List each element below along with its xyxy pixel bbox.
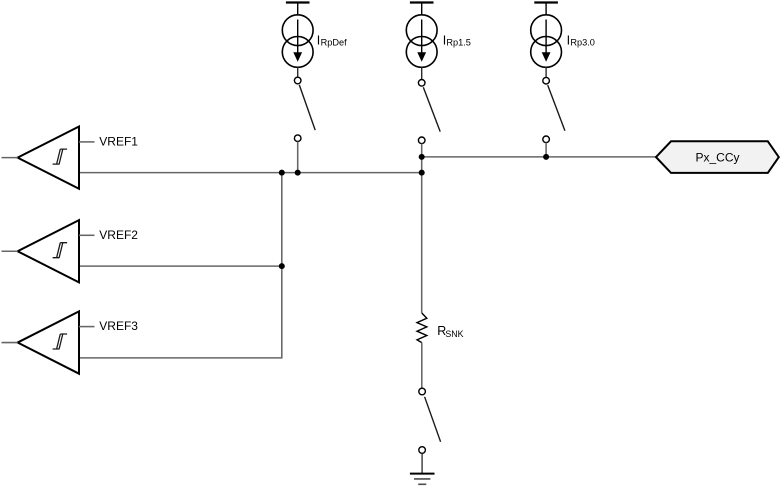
power rail bar (IRpDef supply) bbox=[286, 3, 310, 16]
wire SW3 to node A line bbox=[545, 143, 547, 157]
switch SW3 (below IRp3.0) bbox=[543, 77, 565, 142]
svg-text:VREF1: VREF1 bbox=[99, 135, 138, 149]
wire SW1 to bus node bbox=[297, 142, 299, 173]
svg-text:Rp3.0: Rp3.0 bbox=[570, 38, 595, 48]
op-amp U3 (Schmitt comparator VREF3) bbox=[18, 311, 79, 373]
wire IRp1.5 to SW2 bbox=[421, 67, 423, 79]
switch SW1 (below IRpDef) bbox=[294, 77, 315, 141]
wire SW2 down through node A to resistor bbox=[421, 144, 423, 313]
junction dot bus/SW2 column bbox=[419, 170, 425, 176]
current source I1 IRpDef bbox=[282, 15, 313, 68]
wire resistor to SW4 bbox=[421, 343, 423, 388]
op-amp U2 (Schmitt comparator VREF2) bbox=[18, 220, 79, 282]
svg-text:SNK: SNK bbox=[445, 329, 463, 339]
wire node A horizontal to Px_CCy bbox=[422, 156, 657, 158]
ground bbox=[410, 474, 435, 485]
svg-text:RpDef: RpDef bbox=[321, 38, 347, 48]
svg-text:Rp1.5: Rp1.5 bbox=[446, 38, 471, 48]
junction dot U2 input/vertical bbox=[279, 263, 285, 269]
current source I3 IRp3.0 bbox=[531, 15, 562, 68]
wire VREF1 stub bbox=[79, 141, 95, 143]
junction dot bus/SW1 bbox=[295, 170, 301, 176]
current source I2 IRp1.5 bbox=[406, 15, 437, 68]
junction dot bus/vertical bbox=[279, 170, 285, 176]
op-amp U1 (Schmitt comparator VREF1) bbox=[18, 127, 79, 189]
wire bus horizontal (comparator inputs) bbox=[79, 172, 422, 174]
power rail bar (IRp1.5 supply) bbox=[410, 3, 434, 16]
label IRp3.0 bbox=[567, 34, 595, 48]
node Px_CCy (pin hexagon) bbox=[656, 141, 779, 173]
wire U2 output (apex) bbox=[2, 250, 18, 252]
wire vertical joining comparator inputs bbox=[281, 173, 283, 358]
wire IRpDef to SW1 bbox=[297, 67, 299, 77]
wire IRp3.0 to SW3 bbox=[545, 67, 547, 77]
wire VREF2 stub bbox=[79, 234, 95, 236]
svg-text:VREF2: VREF2 bbox=[99, 228, 138, 242]
label IRpDef bbox=[317, 34, 347, 48]
wire SW4 to ground bbox=[421, 454, 423, 474]
wire VREF3 stub bbox=[79, 326, 95, 328]
svg-text:VREF3: VREF3 bbox=[99, 319, 138, 333]
wire U3 output (apex) bbox=[2, 342, 18, 344]
junction dot at SW3/node A bbox=[543, 154, 549, 160]
wire U1 output (apex) bbox=[2, 157, 18, 159]
svg-text:Px_CCy: Px_CCy bbox=[695, 150, 739, 164]
resistor RSNK bbox=[417, 313, 427, 343]
label IRp1.5 bbox=[443, 34, 471, 48]
wire comparator U3 input bbox=[79, 357, 283, 359]
junction dot at SW2/node A bbox=[419, 154, 425, 160]
power rail bar (IRp3.0 supply) bbox=[534, 3, 558, 16]
wire comparator U2 input bbox=[79, 265, 282, 267]
switch SW4 (RSNK to ground) bbox=[419, 388, 441, 453]
label RSNK bbox=[437, 324, 463, 339]
switch SW2 (below IRp1.5) bbox=[418, 80, 440, 144]
